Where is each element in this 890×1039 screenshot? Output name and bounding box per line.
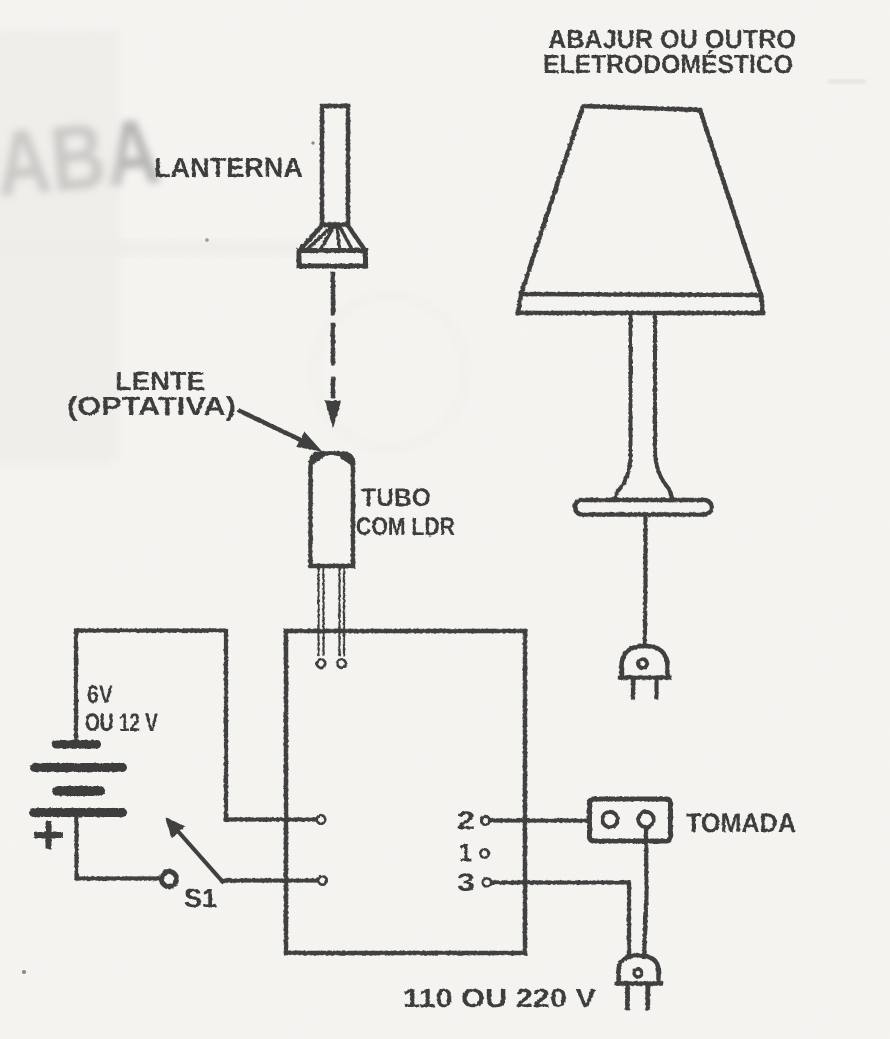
wire outlet to lower plug xyxy=(644,827,647,957)
wire switch to box xyxy=(222,878,318,882)
svg-text:TOMADA: TOMADA xyxy=(686,808,796,838)
svg-text:3: 3 xyxy=(457,869,475,897)
lamp cord xyxy=(643,515,648,644)
label ABAJUR OU OUTRO ELETRODOMÉSTICO xyxy=(543,24,796,79)
value label 6V OU 12 V xyxy=(85,681,158,737)
flashlight rim xyxy=(299,251,366,267)
svg-text:ELETRODOMÉSTICO: ELETRODOMÉSTICO xyxy=(543,49,793,79)
wire terminal 3 to lower plug xyxy=(492,883,630,958)
svg-text:6V: 6V xyxy=(87,681,113,709)
label LENTE (OPTATIVA) xyxy=(67,366,236,421)
flashlight body xyxy=(322,106,348,225)
battery polarity + mark xyxy=(37,824,60,846)
lamp base xyxy=(575,500,712,515)
terminal 3 xyxy=(483,878,491,886)
svg-text:(OPTATIVA): (OPTATIVA) xyxy=(67,391,236,421)
lens pointer arrow xyxy=(240,411,305,442)
svg-text:1: 1 xyxy=(459,839,472,867)
lamp shade base plate xyxy=(518,294,763,313)
tube with LDR xyxy=(311,454,354,567)
svg-text:S1: S1 xyxy=(184,883,217,913)
lamp stem xyxy=(614,313,673,500)
svg-text:COM LDR: COM LDR xyxy=(356,513,455,541)
wire battery negative to switch xyxy=(77,817,159,879)
tube legs xyxy=(319,566,345,655)
control box (circuit module) xyxy=(286,631,525,953)
flashlight head xyxy=(300,225,365,250)
wire terminal 2 to outlet xyxy=(490,818,589,822)
dashed light beam arrow xyxy=(331,274,336,396)
terminal 2 xyxy=(481,816,489,824)
switch S1 contact circle xyxy=(162,872,177,887)
terminal circle upper-left xyxy=(317,815,325,823)
label TUBO COM LDR xyxy=(356,484,455,541)
outlet TOMADA xyxy=(590,799,671,841)
LDR terminal pin left xyxy=(317,659,325,667)
AC line plug (110/220V) xyxy=(619,956,659,984)
svg-text:OU 12 V: OU 12 V xyxy=(85,709,158,737)
svg-text:TUBO: TUBO xyxy=(361,484,431,512)
wire to terminal upper-left xyxy=(226,817,317,821)
svg-text:2: 2 xyxy=(457,807,475,835)
terminal circle lower-left xyxy=(318,876,326,884)
LDR terminal pin right xyxy=(337,659,345,667)
terminal 1 xyxy=(480,849,488,857)
flashlight head fan lines xyxy=(308,228,352,249)
svg-text:110 OU 220 V: 110 OU 220 V xyxy=(403,983,597,1013)
svg-text:LANTERNA: LANTERNA xyxy=(154,152,303,183)
switch S1 blade xyxy=(176,829,222,881)
lamp shade xyxy=(521,106,761,295)
lamp plug xyxy=(622,646,668,678)
battery B1 (6V OU 12V) xyxy=(29,740,127,817)
wire battery positive rail to box xyxy=(76,631,226,820)
